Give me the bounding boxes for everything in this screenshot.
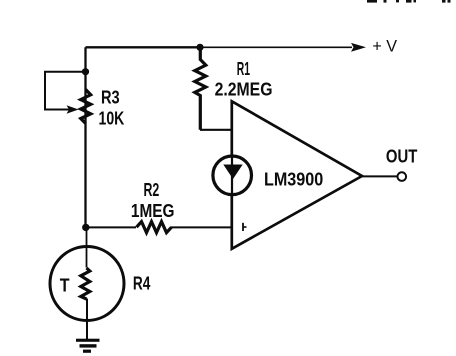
label R2 bbox=[144, 180, 160, 200]
svg-text:T: T bbox=[60, 276, 70, 296]
label R1 bbox=[237, 59, 250, 79]
potentiometer R3 zigzag bbox=[81, 90, 91, 124]
ground bbox=[76, 339, 100, 353]
label R3 bbox=[101, 87, 120, 107]
wire wiper loop of R3 bbox=[45, 72, 86, 110]
wire top supply rail right segment bbox=[200, 46, 352, 48]
wire R2 left segment bbox=[86, 226, 136, 228]
wire top supply rail left segment bbox=[86, 46, 201, 48]
thermistor R4 circle bbox=[50, 247, 124, 321]
svg-text:+ V: + V bbox=[372, 36, 397, 55]
wiper arrowhead of R3 bbox=[67, 105, 79, 114]
node junction wiper tap on left rail bbox=[82, 68, 89, 75]
wire R2 right segment to op-amp bbox=[171, 226, 232, 228]
svg-text:R4: R4 bbox=[133, 274, 151, 294]
label OUT bbox=[386, 147, 417, 167]
label +V bbox=[372, 36, 397, 55]
thermistor R4 zigzag bbox=[81, 268, 90, 299]
op-amp lower input + mark bbox=[243, 223, 247, 231]
resistor R1 zigzag bbox=[195, 47, 206, 130]
wire left rail vertical bbox=[84, 47, 86, 228]
svg-text:R2: R2 bbox=[144, 180, 160, 200]
svg-text:R3: R3 bbox=[101, 87, 120, 107]
label 1MEG bbox=[131, 201, 175, 221]
node junction top of R1 bbox=[196, 44, 203, 51]
svg-text:OUT: OUT bbox=[386, 147, 417, 167]
svg-text:10K: 10K bbox=[99, 109, 125, 129]
wire through current mirror circle bbox=[231, 157, 233, 194]
svg-text:R1: R1 bbox=[237, 59, 250, 79]
cropped caption remnants at top edge bbox=[367, 0, 451, 3]
label R4 bbox=[133, 274, 151, 294]
label T bbox=[60, 276, 70, 296]
label 2.2MEG bbox=[215, 79, 273, 99]
label 10K bbox=[99, 109, 125, 129]
op-amp U1 LM3900 triangle bbox=[232, 101, 362, 249]
current mirror arrowhead bbox=[223, 165, 242, 180]
node junction R2 left on rail bbox=[82, 224, 89, 231]
wire thermistor to ground bbox=[86, 299, 88, 341]
svg-text:1MEG: 1MEG bbox=[131, 201, 175, 221]
wire op-amp output bbox=[362, 175, 397, 177]
output terminal circle bbox=[398, 172, 407, 181]
+V supply arrowhead bbox=[351, 43, 366, 52]
label LM3900 bbox=[264, 170, 323, 190]
current mirror symbol circle on op-amp input bbox=[213, 156, 252, 195]
svg-text:2.2MEG: 2.2MEG bbox=[215, 79, 273, 99]
wire rail down to thermistor bbox=[86, 227, 88, 267]
svg-text:LM3900: LM3900 bbox=[264, 170, 323, 190]
resistor R2 zigzag bbox=[137, 222, 172, 233]
wire R1 to op-amp top input bbox=[200, 129, 232, 131]
